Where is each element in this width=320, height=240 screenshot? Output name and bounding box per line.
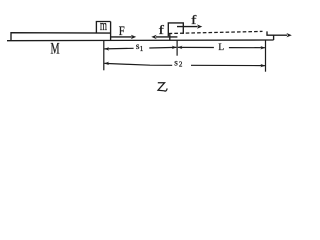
arrowhead velocity [287, 33, 292, 37]
arrowhead s2 right [260, 64, 265, 68]
label yi (Chinese character, diagram B) [158, 83, 167, 91]
arrowhead f left [151, 35, 156, 39]
arrowhead s2 left [104, 62, 109, 66]
force F arrow shaft [111, 36, 132, 38]
arrowhead F [131, 35, 136, 39]
arrowhead L right [260, 46, 265, 50]
arrowhead s1 right [172, 46, 177, 50]
plank2 left edge [169, 33, 171, 40]
L dimension shafts [178, 46, 265, 48]
plank M right edge and block m right edge [110, 22, 112, 41]
arrowhead s1 left [104, 47, 109, 51]
dimension vertical right [265, 40, 267, 72]
svg-text:m: m [100, 18, 107, 34]
friction f on block arrow shaft [177, 26, 198, 28]
s1 dimension shafts [105, 47, 177, 49]
dimension vertical middle [176, 40, 178, 56]
arrowhead L left [178, 46, 183, 50]
dimension vertical left [103, 40, 105, 70]
svg-text:F: F [119, 23, 125, 38]
block m [96, 22, 110, 34]
svg-text:f: f [191, 14, 197, 28]
plank M initial position [11, 33, 111, 41]
dashed surface line [169, 31, 263, 33]
svg-text:f: f [158, 24, 164, 38]
plank2 right end step [267, 31, 274, 40]
s2 dimension shafts [105, 63, 265, 65]
svg-text:2: 2 [179, 61, 183, 69]
svg-text:s: s [174, 58, 178, 68]
block m final position [168, 23, 183, 36]
svg-text:M: M [50, 41, 59, 58]
svg-text:1: 1 [140, 45, 144, 53]
friction f on plank arrow shaft [156, 36, 177, 38]
ground [7, 39, 274, 42]
arrowhead f right [197, 24, 202, 28]
velocity arrow shaft [274, 34, 287, 36]
svg-text:L: L [218, 43, 224, 53]
